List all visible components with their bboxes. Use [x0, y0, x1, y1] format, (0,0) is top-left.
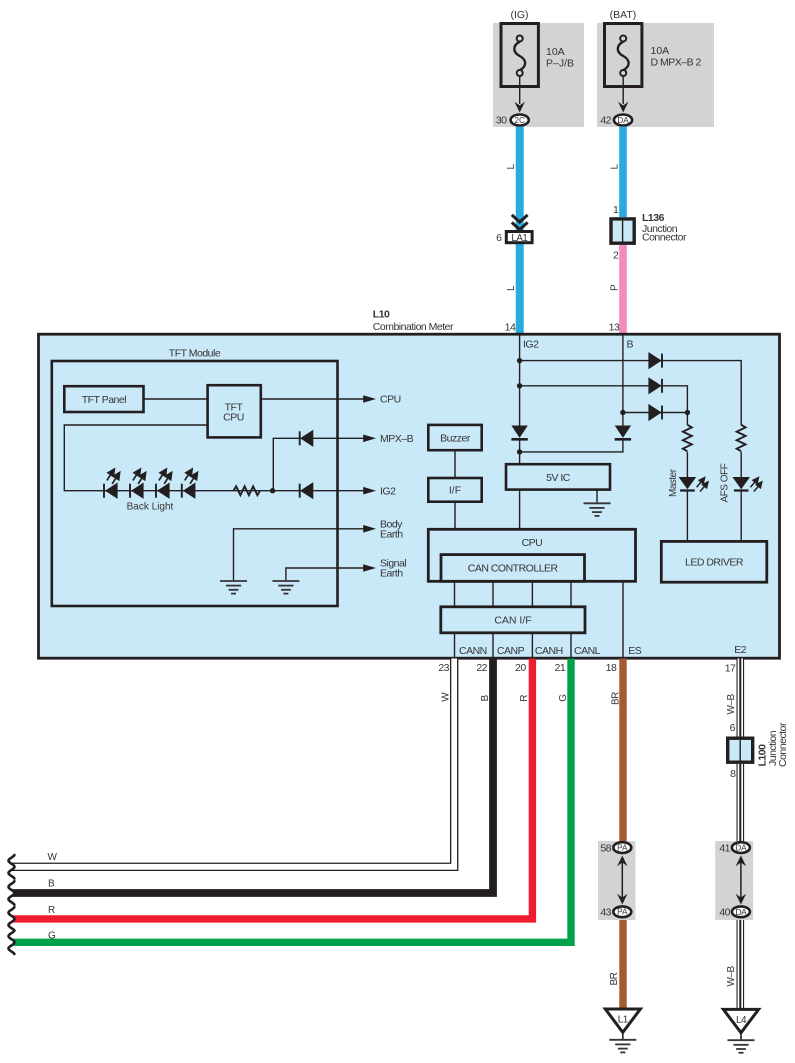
svg-text:TFT Panel: TFT Panel [82, 394, 126, 406]
svg-text:Connector: Connector [642, 232, 687, 244]
svg-text:W–B: W–B [726, 966, 737, 987]
svg-text:BR: BR [610, 692, 621, 705]
svg-text:14: 14 [505, 321, 516, 333]
svg-text:R: R [48, 905, 55, 916]
svg-text:58: 58 [600, 842, 611, 854]
svg-text:L: L [609, 164, 620, 170]
svg-text:2C: 2C [514, 116, 525, 125]
svg-text:BR: BR [609, 972, 620, 985]
svg-text:Earth: Earth [380, 529, 403, 541]
svg-text:L10: L10 [373, 309, 390, 321]
svg-text:18: 18 [606, 662, 617, 674]
svg-text:AFS OFF: AFS OFF [720, 463, 731, 502]
svg-text:41: 41 [719, 842, 730, 854]
svg-text:TFT Module: TFT Module [169, 347, 221, 359]
svg-text:PA: PA [617, 908, 628, 917]
svg-text:DA: DA [735, 907, 747, 917]
svg-text:10A: 10A [651, 45, 670, 57]
svg-text:20: 20 [515, 662, 526, 674]
svg-text:CANP: CANP [497, 645, 525, 657]
svg-text:LED DRIVER: LED DRIVER [685, 557, 744, 569]
svg-text:(BAT): (BAT) [610, 9, 637, 21]
svg-text:22: 22 [476, 662, 487, 674]
svg-text:30: 30 [496, 115, 507, 127]
svg-text:43: 43 [600, 907, 611, 919]
svg-text:CAN CONTROLLER: CAN CONTROLLER [468, 563, 559, 575]
svg-text:G: G [558, 694, 569, 702]
svg-text:B: B [627, 339, 634, 351]
svg-text:LA1: LA1 [511, 233, 527, 244]
svg-text:L: L [506, 285, 517, 291]
svg-text:Back Light: Back Light [127, 501, 174, 512]
svg-text:23: 23 [438, 662, 449, 674]
svg-text:E2: E2 [734, 644, 747, 656]
svg-text:R: R [519, 695, 530, 702]
svg-text:W–B: W–B [726, 694, 737, 715]
svg-text:21: 21 [555, 662, 566, 674]
svg-text:17: 17 [725, 663, 736, 675]
svg-text:CAN I/F: CAN I/F [494, 615, 531, 627]
svg-text:5V IC: 5V IC [546, 472, 571, 484]
svg-text:42: 42 [600, 115, 611, 127]
svg-text:DA: DA [735, 843, 747, 852]
svg-text:G: G [48, 931, 56, 942]
svg-text:(IG): (IG) [510, 9, 528, 21]
svg-text:Buzzer: Buzzer [440, 433, 471, 445]
svg-text:10A: 10A [546, 46, 565, 58]
svg-text:6: 6 [496, 232, 502, 244]
svg-text:W: W [441, 692, 452, 702]
svg-text:L: L [506, 164, 517, 170]
svg-text:IG2: IG2 [523, 339, 539, 351]
svg-text:CPU: CPU [223, 412, 244, 424]
svg-text:13: 13 [609, 321, 620, 333]
svg-text:L4: L4 [736, 1015, 747, 1026]
svg-text:CANN: CANN [459, 645, 487, 657]
svg-text:CPU: CPU [380, 394, 401, 406]
svg-text:CANL: CANL [574, 645, 601, 657]
svg-text:L1: L1 [618, 1015, 629, 1026]
svg-text:CANH: CANH [535, 645, 563, 657]
svg-text:Connector: Connector [777, 722, 789, 767]
svg-text:DA: DA [617, 116, 629, 125]
svg-text:CPU: CPU [522, 537, 543, 549]
svg-text:IG2: IG2 [380, 485, 396, 497]
svg-text:B: B [48, 878, 55, 889]
svg-text:MPX–B: MPX–B [380, 433, 414, 445]
svg-text:B: B [480, 695, 491, 702]
svg-text:W: W [48, 852, 58, 863]
svg-text:I/F: I/F [449, 485, 461, 497]
svg-text:Master: Master [668, 468, 679, 497]
svg-text:PA: PA [617, 843, 628, 852]
svg-text:1: 1 [613, 204, 619, 216]
svg-text:ES: ES [628, 645, 642, 657]
svg-text:D MPX–B 2: D MPX–B 2 [651, 57, 702, 69]
svg-text:6: 6 [730, 722, 736, 734]
svg-text:2: 2 [613, 249, 619, 261]
svg-text:P–J/B: P–J/B [546, 58, 574, 70]
svg-text:8: 8 [730, 768, 736, 780]
svg-text:Combination Meter: Combination Meter [373, 321, 454, 333]
svg-text:40: 40 [719, 907, 730, 919]
svg-text:Earth: Earth [380, 567, 403, 579]
svg-text:P: P [609, 284, 620, 291]
